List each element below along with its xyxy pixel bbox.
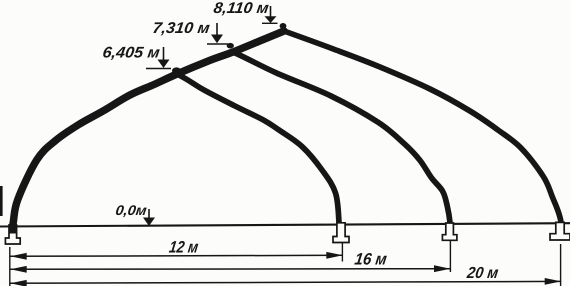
dimension line 12 m (10, 254, 343, 257)
footing of 12 m arch (333, 223, 349, 243)
svg-text:0,0м: 0,0м (115, 202, 149, 218)
arch end stub inside left footing (9, 224, 16, 234)
extension line at 16 m footing (449, 241, 451, 273)
footing of 16 m arch (442, 223, 457, 240)
level mark 0.0 (148, 209, 150, 220)
level mark 7.310 (216, 23, 218, 37)
extension line at 12 m footing (341, 242, 343, 262)
left extension line (9, 247, 11, 286)
arch left half (shared band of all three arches) (13, 31, 284, 226)
svg-text:8,110 м: 8,110 м (212, 0, 270, 17)
dimension line 16 m (10, 268, 451, 271)
svg-text:16 м: 16 м (353, 251, 388, 269)
extension line at 20 m footing (560, 244, 562, 286)
arch 3 right half (20 m span) (284, 31, 561, 223)
svg-text:6,405 м: 6,405 м (101, 44, 161, 61)
arch 2 right half (16 m span) (233, 52, 450, 223)
hinge blob at 6.405 crest (172, 67, 181, 73)
scan edge artifact (0, 186, 3, 216)
svg-text:20 м: 20 м (465, 265, 499, 282)
dimension line 20 m (10, 281, 561, 283)
svg-text:12 м: 12 м (168, 239, 200, 257)
ground line (0, 223, 570, 226)
footing of 20 m arch (550, 222, 570, 240)
arch 1 right half (12 m span) (177, 74, 339, 223)
hinge blob at 8.110 crest (280, 23, 287, 29)
svg-text:7,310 м: 7,310 м (151, 20, 211, 37)
level mark 6.405 (163, 47, 165, 62)
left common footing (5, 225, 20, 244)
level mark 8.110 (270, 6, 272, 18)
hinge blob at 7.310 crest (227, 43, 234, 49)
